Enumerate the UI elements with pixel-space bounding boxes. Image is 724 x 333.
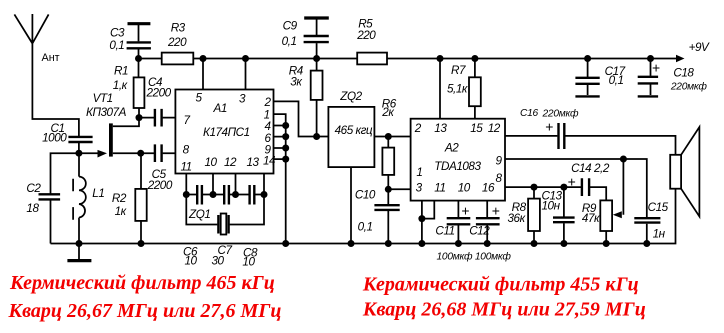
svg-text:Кварц 26,67 МГц или 27,6 МГц: Кварц 26,67 МГц или 27,6 МГц [8,300,282,322]
svg-text:2: 2 [264,96,272,109]
svg-text:2200: 2200 [146,86,172,99]
svg-text:Кварц 26,68 МГц или 27,59 МГц: Кварц 26,68 МГц или 27,59 МГц [362,299,646,321]
svg-text:10: 10 [205,156,218,169]
svg-text:TDA1083: TDA1083 [434,160,481,173]
svg-text:1н: 1н [653,228,666,241]
svg-text:1: 1 [416,166,422,179]
svg-text:Керамический фильтр 455 кГц: Керамический фильтр 455 кГц [362,274,639,296]
svg-text:L1: L1 [92,187,104,200]
svg-text:C3: C3 [110,27,125,40]
svg-text:ZQ1: ZQ1 [188,208,210,221]
svg-text:0,1: 0,1 [282,35,297,48]
svg-text:8: 8 [183,143,190,156]
svg-text:9: 9 [496,154,503,167]
svg-text:1000: 1000 [42,132,67,145]
svg-text:47к: 47к [582,212,600,225]
svg-text:7: 7 [184,114,191,127]
svg-text:R1: R1 [114,65,128,78]
svg-text:2: 2 [414,122,422,135]
svg-text:R7: R7 [451,64,466,77]
svg-text:К174ПС1: К174ПС1 [203,126,250,139]
svg-text:Кермический фильтр 465 кГц: Кермический фильтр 465 кГц [9,272,275,294]
svg-text:C10: C10 [355,188,376,201]
svg-text:12: 12 [224,156,237,169]
svg-text:0,1: 0,1 [109,39,124,52]
svg-text:3к: 3к [290,76,302,89]
svg-text:465 кгц: 465 кгц [335,124,373,137]
svg-text:10: 10 [185,255,198,268]
svg-text:1,к: 1,к [113,79,128,92]
svg-text:220мкф: 220мкф [670,80,708,92]
svg-text:А1: А1 [213,102,227,115]
svg-text:100мкф 100мкф: 100мкф 100мкф [437,251,512,263]
svg-text:30: 30 [212,255,225,268]
svg-text:16: 16 [482,182,495,195]
svg-text:14: 14 [263,155,276,168]
svg-text:+: + [461,203,469,219]
svg-text:2к: 2к [381,106,394,119]
svg-text:12: 12 [488,122,501,135]
svg-text:10: 10 [242,255,255,268]
svg-text:R3: R3 [171,22,186,35]
svg-text:+: + [652,60,660,76]
svg-text:А2: А2 [444,142,459,155]
svg-text:C2: C2 [26,182,41,195]
svg-text:C14 2,2: C14 2,2 [571,162,610,175]
svg-text:2200: 2200 [147,179,173,192]
svg-text:C9: C9 [283,19,298,32]
svg-text:5,1к: 5,1к [447,83,468,96]
svg-text:3: 3 [239,92,246,105]
svg-text:15: 15 [470,122,483,135]
svg-text:220: 220 [356,29,376,42]
svg-text:5: 5 [196,92,203,105]
svg-text:C18: C18 [673,67,694,80]
svg-text:R2: R2 [112,192,127,205]
svg-text:3: 3 [416,182,423,195]
svg-text:18: 18 [26,202,39,215]
svg-text:11: 11 [181,161,192,174]
svg-text:8: 8 [496,172,503,185]
svg-text:C12: C12 [469,224,490,237]
svg-text:+: + [568,174,576,190]
svg-text:13: 13 [434,122,447,135]
svg-text:C16: C16 [520,108,539,119]
svg-text:+: + [492,203,500,219]
svg-text:Ант: Ант [42,52,60,64]
svg-text:ZQ2: ZQ2 [339,90,362,103]
svg-text:220: 220 [167,36,187,49]
svg-text:10н: 10н [542,199,561,212]
svg-text:0,1: 0,1 [609,74,624,87]
svg-text:11: 11 [434,182,445,195]
svg-text:VT1: VT1 [93,92,113,105]
svg-text:C15: C15 [648,201,669,214]
svg-text:0,1: 0,1 [358,221,373,234]
svg-text:C11: C11 [435,224,454,237]
svg-text:13: 13 [247,156,260,169]
svg-text:1к: 1к [115,205,127,218]
svg-text:+9V: +9V [689,41,710,54]
svg-text:36к: 36к [508,212,526,225]
svg-text:КП307А: КП307А [86,106,127,119]
svg-text:10: 10 [458,182,471,195]
svg-text:+: + [545,119,553,135]
